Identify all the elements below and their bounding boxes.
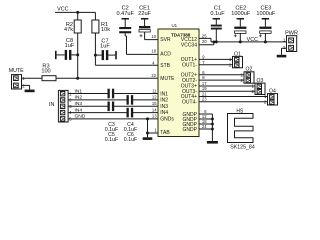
node junction dot C1 [215,40,218,43]
wire OUT2+ [199,74,244,76]
node junction dot GND/TAB column [146,117,149,120]
wire OUT2- [199,79,244,81]
capacitor C4 0.1uF [127,95,134,105]
wire GND down to ground [147,119,149,137]
svg-text:10k: 10k [101,27,110,33]
ground symbol MUTE [25,90,35,93]
svg-text:STB: STB [160,63,170,69]
wire R2 top lead [77,12,79,20]
svg-text:VCC: VCC [57,7,68,13]
svg-text:GNDP: GNDP [183,127,198,133]
svg-text:VCC34: VCC34 [181,43,197,49]
wire TAB [148,132,159,134]
wire OUT3- [199,90,255,92]
svg-text:OUT1-: OUT1- [182,63,197,69]
svg-text:1000uF: 1000uF [231,11,251,17]
value labels C4 C6 column [124,122,138,143]
wire R1 bottom lead [94,33,96,65]
connector IN 5-pin [49,90,72,122]
svg-text:11: 11 [152,88,157,93]
svg-text:22: 22 [151,73,156,78]
connector PWR 2-pin [283,31,298,52]
op-amp U1 TDA7388 chip body [158,23,199,137]
heatsink HS SK125_84 [228,109,255,151]
wire OUT1- [199,64,233,66]
svg-text:0.1uF: 0.1uF [210,11,225,17]
node junction dot R1/C7/STB [94,54,97,57]
node VCC label top-left [57,7,68,13]
svg-text:7: 7 [202,60,205,65]
node junction dot TAB [146,132,149,135]
wire OUT1+ [199,58,233,60]
node junction dot GNDP2 [211,118,214,121]
svg-text:47k: 47k [64,27,73,33]
wire VCC34 to rail [199,42,214,45]
ground symbol GNDP [207,141,218,144]
wire GND input [68,118,158,120]
svg-text:15: 15 [152,101,157,106]
svg-text:1000uF: 1000uF [256,11,276,17]
value labels C3 C5 column [105,122,119,143]
node junction dot CE2 [239,40,242,43]
svg-text:8: 8 [202,75,205,80]
wire PWR pin2 to ground [282,48,287,55]
wire MUTE pin1 to R3 [22,77,43,79]
wire IN2 [68,99,158,101]
svg-text:25: 25 [202,33,207,38]
svg-text:MUTE: MUTE [9,68,24,74]
capacitor C5 0.1uF [108,102,115,112]
wire GNDP 4 [199,128,212,130]
connector MUTE 2-pin [9,68,26,89]
svg-text:2: 2 [283,45,286,50]
svg-text:MUTE: MUTE [160,76,175,82]
wire STB to chip [95,64,158,66]
svg-text:18: 18 [151,49,156,54]
node junction dot R3/MUTE [76,77,79,80]
capacitor C7 1uF [95,39,116,61]
capacitor C2 0.47uF [116,6,158,55]
node junction dot VCC34 [212,40,215,43]
wire VCC12 to rail [199,38,211,42]
connector O1 2-pin [229,51,243,68]
capacitor C8 1uF [55,38,78,60]
svg-text:IN3: IN3 [160,104,168,110]
wire IN3 [68,105,158,107]
svg-text:1: 1 [154,128,157,133]
svg-text:IN4: IN4 [160,110,168,116]
capacitor CE2 1000uF electrolytic [231,6,251,42]
node junction dot R2/C8 [76,53,79,56]
svg-text:0.1uF: 0.1uF [105,137,119,143]
capacitor C6 0.1uF [127,108,134,118]
svg-text:ACD: ACD [160,52,171,58]
capacitor CE1 22uF electrolytic [138,6,158,40]
wire VCC power rail [211,41,287,43]
capacitor C3 0.1uF [108,89,115,99]
wire IN4 [68,112,158,114]
svg-text:SVR: SVR [160,37,171,43]
resistor R1 10k [92,20,110,33]
svg-text:6: 6 [202,70,205,75]
svg-text:22uF: 22uF [138,11,151,17]
svg-text:12: 12 [152,95,157,100]
connector O4 2-pin [264,89,278,106]
svg-text:OUT4-: OUT4- [182,99,197,105]
svg-text:24: 24 [202,124,207,129]
ground symbol PWR [277,55,287,58]
resistor R3 100 [41,64,158,81]
svg-text:U1: U1 [171,23,177,28]
svg-text:0.47uF: 0.47uF [116,11,134,17]
pin numbers IN pins [152,88,157,118]
svg-text:1uF: 1uF [100,44,110,50]
wire MUTE pin2 to ground [22,85,30,89]
svg-text:19: 19 [202,86,207,91]
svg-text:1uF: 1uF [65,43,75,49]
ground symbol input [143,137,153,140]
wire GNDP 1 [199,114,212,141]
capacitor C1 0.1uF [210,6,225,42]
svg-text:100: 100 [41,68,50,74]
svg-text:14: 14 [152,107,157,112]
wire OUT3+ [199,85,255,87]
wire MUTE net vertical [77,55,79,78]
svg-text:VCC: VCC [247,37,258,43]
svg-text:13: 13 [152,114,157,119]
wire OUT4+ [199,96,268,98]
svg-text:20: 20 [202,39,207,44]
svg-text:IN: IN [49,102,55,108]
wire IN1 [68,93,158,95]
svg-text:10: 10 [151,34,156,39]
svg-text:9: 9 [202,54,205,59]
wire VCC rail top-left [55,11,95,13]
svg-text:0.1uF: 0.1uF [124,137,138,143]
capacitor CE3 1000uF electrolytic [256,6,276,42]
wire GNDP 3 [199,123,212,125]
svg-text:IN2: IN2 [160,98,168,104]
wire OUT4- [199,101,268,103]
svg-text:SK125_84: SK125_84 [230,144,255,150]
resistor R2 47k [64,20,81,33]
wire R1 top lead [94,12,96,20]
node junction dot CE3 [264,40,267,43]
svg-text:IN1: IN1 [160,91,168,97]
wire R2 bottom lead [77,33,79,55]
wire GNDP 2 [199,118,212,120]
node junction dot GNDP4 [211,128,214,131]
svg-text:TAB: TAB [160,130,170,136]
connector O3 2-pin [251,78,265,95]
connector O2 2-pin [240,67,254,84]
svg-text:23: 23 [202,97,207,102]
svg-text:GNDs: GNDs [160,117,174,123]
svg-text:4: 4 [152,60,155,65]
node junction dot GNDP3 [211,123,214,126]
node junction dot VCC/R2 [76,11,79,14]
